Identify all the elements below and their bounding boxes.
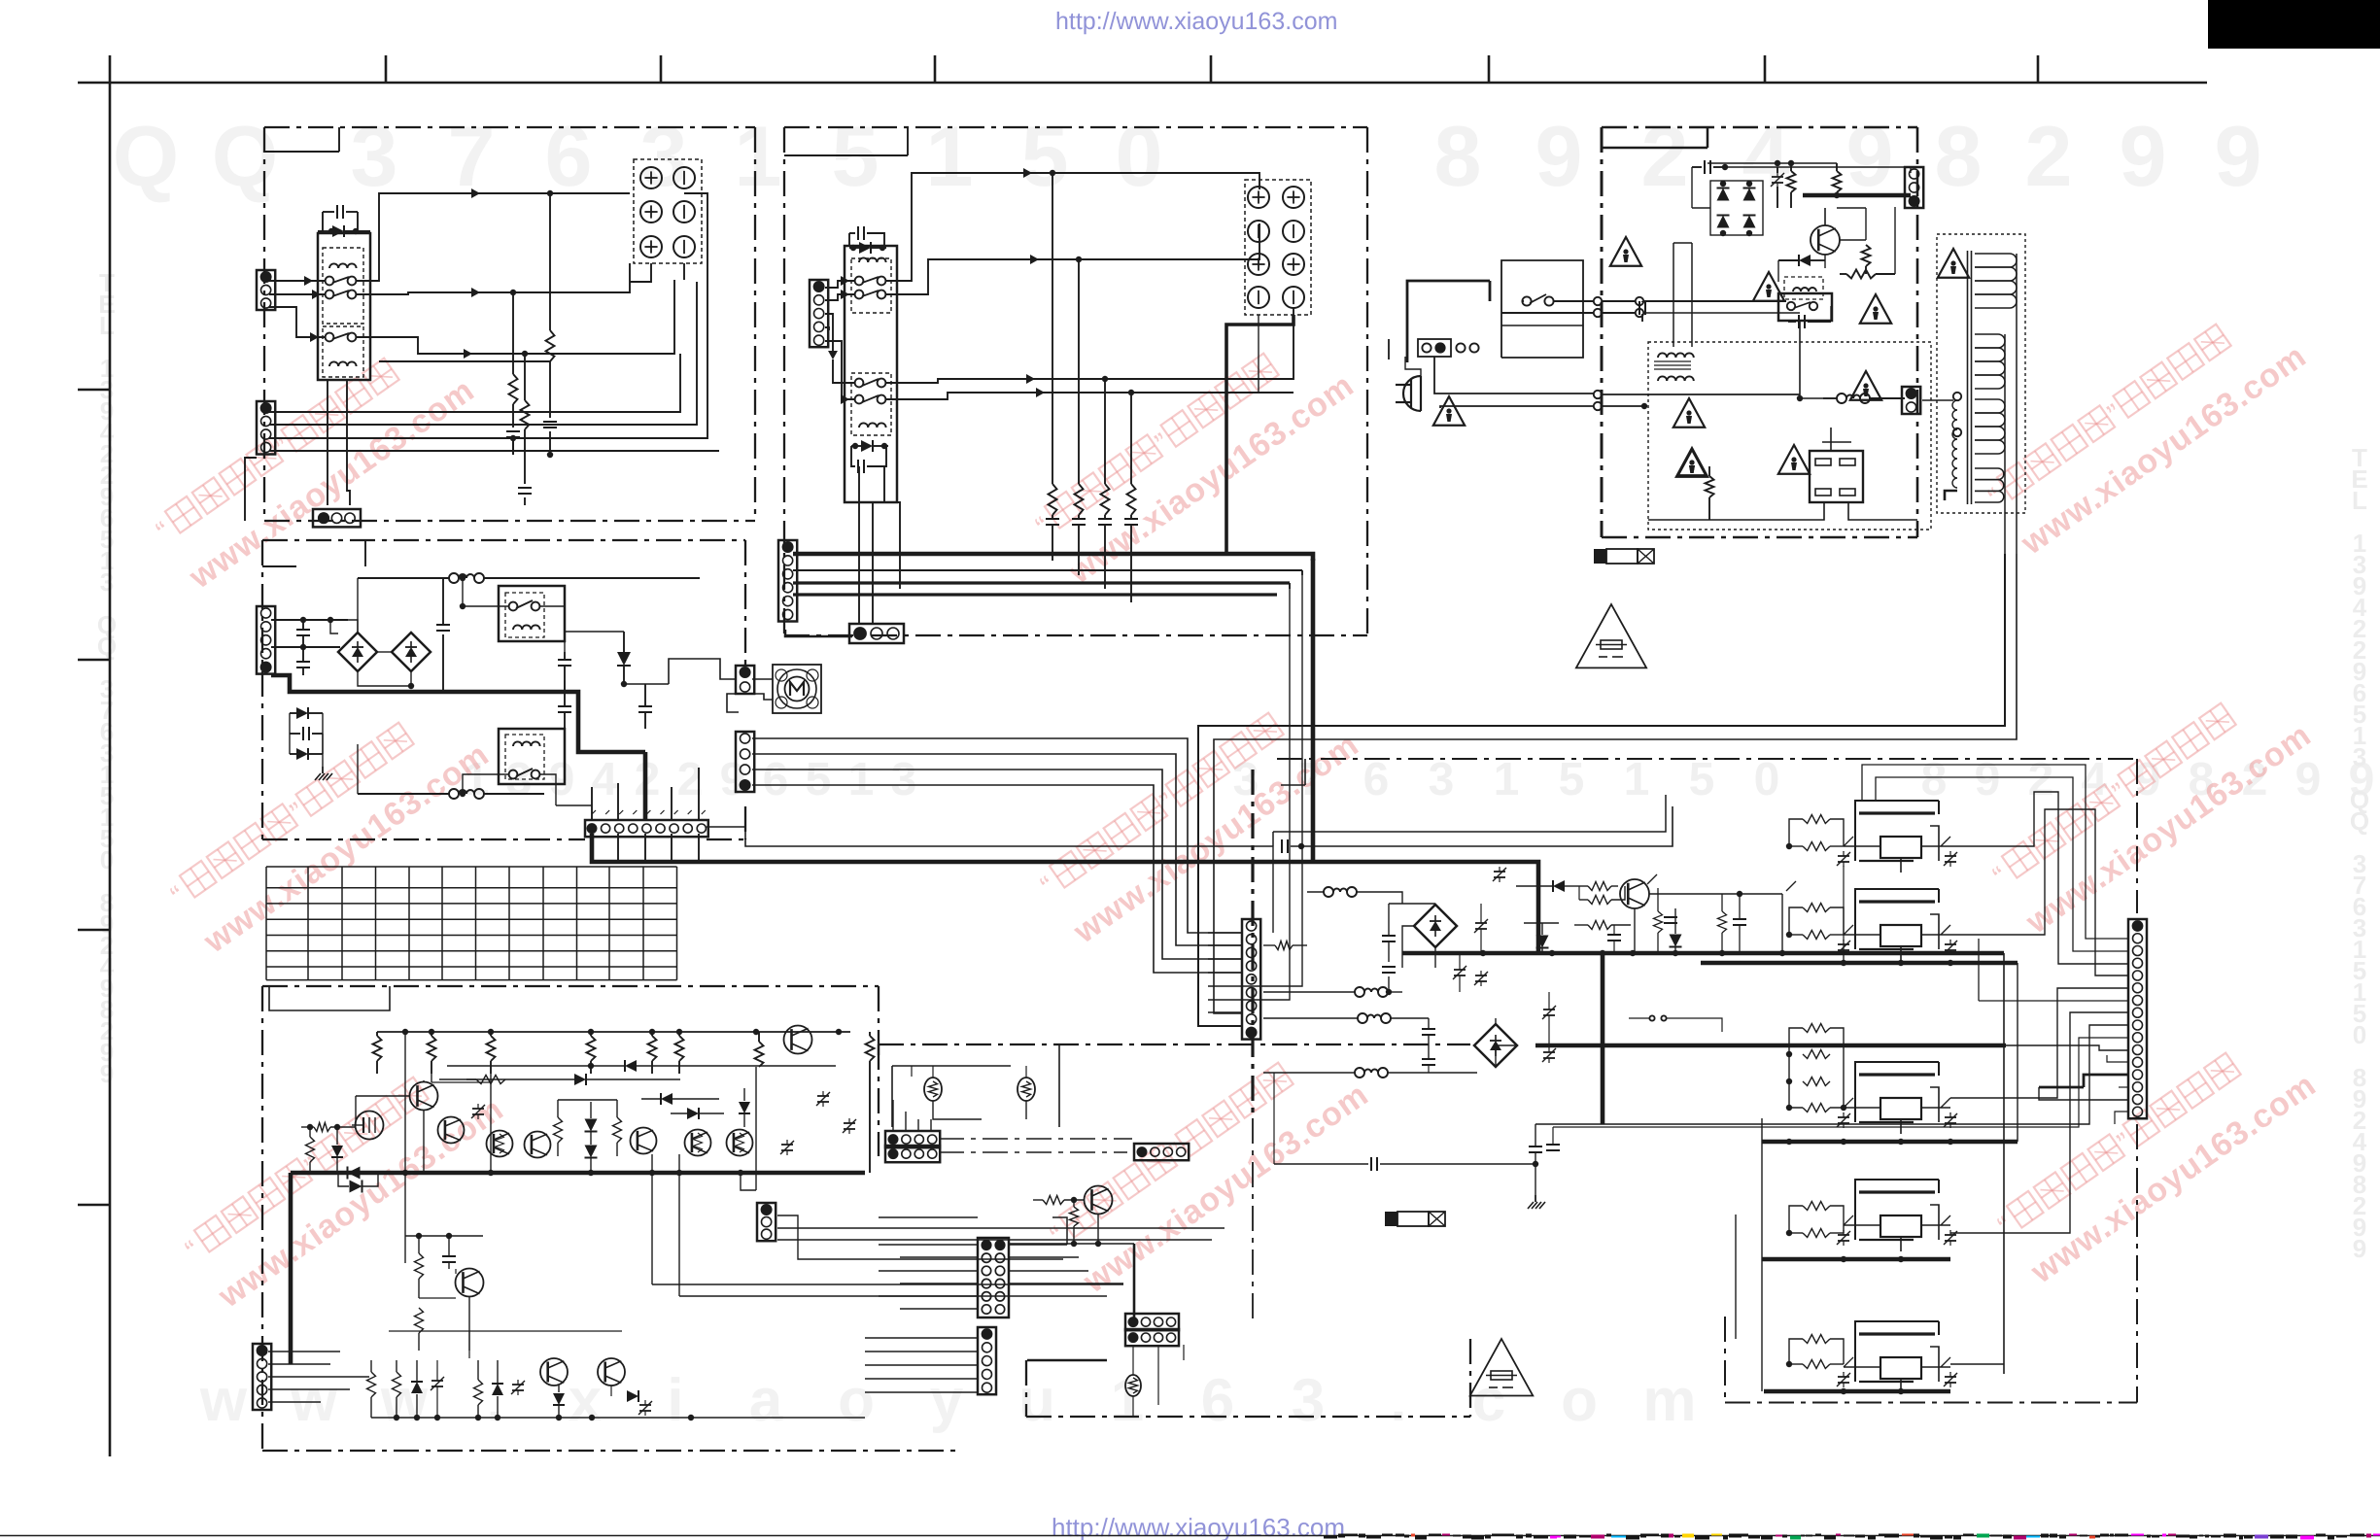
wire xyxy=(683,263,685,280)
relay RY202 contact 1 xyxy=(855,379,886,388)
capacitor C407 xyxy=(290,727,323,740)
wire xyxy=(900,1308,978,1310)
relay module K602 xyxy=(1837,889,1957,961)
transistor Q601 xyxy=(1620,879,1649,908)
svg-text:w: w xyxy=(380,1367,429,1434)
resistor R507 xyxy=(755,1032,764,1067)
wire thick xyxy=(271,675,645,820)
wire xyxy=(1822,428,1851,451)
capacitor C601 xyxy=(1382,904,1396,962)
wire xyxy=(460,578,509,609)
wire long vertical xyxy=(1950,953,2004,1374)
wire xyxy=(885,168,1259,281)
resistor R515 xyxy=(415,1308,424,1351)
wire xyxy=(900,1256,978,1258)
svg-text:3: 3 xyxy=(351,108,398,204)
transistor Q511 xyxy=(540,1358,568,1386)
wire xyxy=(1208,958,1242,960)
svg-text:5: 5 xyxy=(806,754,832,805)
capacitor C103 xyxy=(506,431,520,455)
zener ZD301 xyxy=(1771,167,1784,208)
bridge rectifier DB601 xyxy=(1414,905,1457,947)
wire C out 2 xyxy=(1214,554,2017,1013)
relay RY301 xyxy=(1778,277,1832,321)
capacitor C203 xyxy=(1046,515,1059,561)
wire xyxy=(741,1067,756,1190)
resistor R305 xyxy=(1706,466,1714,520)
connector CN103 xyxy=(313,509,361,527)
wire bus thick xyxy=(592,834,1538,953)
diode D602 xyxy=(1493,867,1579,892)
trimmer VR501 xyxy=(471,1104,485,1119)
transistor Q508 xyxy=(727,1130,753,1156)
watermark 9 xyxy=(1992,1021,2323,1290)
resistor R508 xyxy=(866,1032,875,1173)
capacitor C301 xyxy=(1692,160,1728,174)
wire xyxy=(707,827,1273,846)
wire xyxy=(1673,243,1692,347)
svg-text:5: 5 xyxy=(1021,108,1069,204)
wire xyxy=(404,1032,406,1263)
trimmer VR604 xyxy=(1542,1047,1556,1063)
trimmer VR506 xyxy=(511,1380,525,1395)
wire bus thick xyxy=(793,554,1313,862)
wire bus xyxy=(793,593,1277,596)
wire xyxy=(785,630,852,636)
svg-text:1: 1 xyxy=(1494,754,1520,805)
capacitor C604 xyxy=(1422,1059,1435,1073)
wire xyxy=(1402,926,1435,968)
capacitor C408 xyxy=(1282,806,1673,853)
resistor R201 xyxy=(1049,484,1057,515)
rectifier diode D304 xyxy=(1743,216,1756,228)
resistor R516 xyxy=(367,1360,376,1418)
resistor R520 xyxy=(1070,1200,1079,1247)
wire xyxy=(389,1331,622,1358)
trimmer VR602 xyxy=(1474,971,1488,986)
wire xyxy=(1603,1025,2128,1124)
wire xyxy=(1649,891,1782,953)
capacitor C205 xyxy=(1098,515,1112,589)
transformer T302 rail 2 xyxy=(2004,334,2006,554)
top url text xyxy=(1055,8,1337,35)
connector CN504 xyxy=(1134,1144,1189,1160)
svg-text:6: 6 xyxy=(763,754,789,805)
wire xyxy=(752,679,773,700)
svg-text:0: 0 xyxy=(1116,108,1163,204)
transformer T302 core xyxy=(1968,251,1972,504)
ground GND1 xyxy=(315,767,332,780)
diode D509 xyxy=(553,1386,565,1418)
resistor R509 xyxy=(439,1076,505,1084)
wire xyxy=(1501,309,1800,317)
connector CN301 xyxy=(1905,167,1923,208)
wire xyxy=(669,659,736,684)
inductor L301 xyxy=(1823,394,1905,403)
resistor pair module5 xyxy=(1786,1335,1844,1369)
wire xyxy=(1009,1257,1123,1283)
watermark 2 xyxy=(1030,322,1361,591)
wire thick xyxy=(1803,192,1911,198)
wire xyxy=(1440,402,1647,410)
diode D501 xyxy=(447,1060,836,1072)
relay RY101 coil xyxy=(329,263,357,268)
resistor R301 xyxy=(1787,165,1796,208)
connector CN202 xyxy=(778,540,797,622)
connector CN503 2x4 xyxy=(885,1131,940,1162)
lamp LP502 xyxy=(1018,1078,1035,1101)
inductor L401 xyxy=(358,573,700,633)
wire xyxy=(2119,1086,2128,1088)
bridge rectifier DB401 xyxy=(338,633,377,671)
warning triangle xyxy=(1678,450,1707,475)
rectifier wires xyxy=(1692,167,1763,236)
connector CN401 xyxy=(257,606,275,674)
warning triangle xyxy=(1673,398,1705,428)
wire xyxy=(652,1154,1123,1284)
border top rule xyxy=(78,82,2207,85)
wire xyxy=(424,1074,431,1173)
wire xyxy=(2107,1055,2128,1062)
wire xyxy=(2006,1045,2128,1050)
relay RY101 coil 2 xyxy=(329,361,357,366)
block E notch xyxy=(269,986,390,1010)
rectifier diode D301 xyxy=(1717,188,1730,201)
capacitor C101 xyxy=(318,205,370,231)
svg-text:3: 3 xyxy=(640,108,688,204)
wire xyxy=(1979,939,2128,1001)
connector CN404 xyxy=(736,732,754,792)
wire xyxy=(269,276,326,286)
svg-text:1: 1 xyxy=(735,108,782,204)
diode D402 xyxy=(290,748,323,760)
wire bus thick E xyxy=(291,1170,865,1176)
block E outline xyxy=(262,986,957,1451)
diode D507 xyxy=(348,1167,361,1180)
capacitor C206 xyxy=(1124,515,1138,602)
svg-text:6: 6 xyxy=(545,108,593,204)
svg-text:9: 9 xyxy=(549,754,575,805)
AC plug P301 xyxy=(1396,376,1421,411)
wire B down 1 xyxy=(1242,575,1302,986)
bottom hairline xyxy=(0,1535,2380,1537)
wire xyxy=(269,307,326,342)
power switch inner box xyxy=(1501,260,1583,358)
wire xyxy=(900,1283,978,1284)
wire xyxy=(356,188,630,281)
watermark 1 xyxy=(151,326,481,596)
capacitor C603 xyxy=(1422,1018,1435,1059)
block A outline xyxy=(264,127,755,521)
bottom noise strip xyxy=(1324,1534,2380,1540)
svg-text:9: 9 xyxy=(1975,754,2001,805)
wire xyxy=(1950,1012,2128,1233)
resistor R518 xyxy=(474,1360,483,1418)
signal table grid xyxy=(266,867,677,980)
wire xyxy=(825,327,829,330)
relay RY401 box xyxy=(499,586,565,641)
capacitor C201 xyxy=(849,226,884,246)
svg-text:6: 6 xyxy=(1363,754,1390,805)
wire xyxy=(858,466,860,624)
svg-text:http://www.xiaoyu163.com: http://www.xiaoyu163.com xyxy=(1055,8,1337,35)
transformer T302 rail 1 xyxy=(2016,254,2018,554)
wire xyxy=(752,770,1242,959)
svg-text:1: 1 xyxy=(926,108,974,204)
wire thick xyxy=(1762,1256,1950,1262)
wire xyxy=(269,290,326,299)
resistor pair module4 xyxy=(1786,1202,1844,1238)
wire thick xyxy=(1764,1388,1950,1394)
wire thick xyxy=(2039,1075,2128,1087)
capacitor C303 xyxy=(1639,301,1645,322)
relay RY201 contact 2 xyxy=(855,291,886,299)
watermark 8 xyxy=(1045,1031,1375,1300)
wire xyxy=(424,1080,491,1082)
wire xyxy=(1258,315,1259,393)
capacitor C605 xyxy=(1607,925,1621,953)
block D outline xyxy=(262,540,745,839)
wire xyxy=(1208,1011,1242,1013)
svg-text:5: 5 xyxy=(1559,754,1585,805)
wire xyxy=(1736,1118,1762,1391)
wire xyxy=(564,680,566,692)
wire xyxy=(1825,208,1866,240)
resistor R513 xyxy=(306,1127,315,1173)
wire bus xyxy=(371,1415,865,1420)
svg-text:Q: Q xyxy=(97,632,117,661)
watermark 5 xyxy=(1035,681,1365,950)
relay RY201 coil xyxy=(859,257,886,262)
lamp LP503 xyxy=(1125,1375,1141,1396)
capacitor C501 xyxy=(442,1236,456,1269)
inductor L601 xyxy=(1307,887,1402,904)
wire B down 2 xyxy=(1242,589,1290,1000)
svg-text:0: 0 xyxy=(100,845,114,874)
wire bus xyxy=(269,193,707,458)
wire xyxy=(885,223,1259,294)
capacitor C404 xyxy=(558,652,571,680)
wire xyxy=(556,804,592,806)
wire bus xyxy=(793,583,1290,589)
transformer T301 box xyxy=(1648,342,1931,530)
trimmer VR601 xyxy=(1474,904,1488,953)
background text row xyxy=(113,108,2262,204)
svg-text:4: 4 xyxy=(592,754,618,805)
diode D504 xyxy=(671,1108,724,1119)
connector pin ticks xyxy=(592,810,706,814)
wire xyxy=(1208,972,1242,974)
resistor R505 xyxy=(648,1032,657,1074)
motor connector CN403 xyxy=(736,666,754,694)
inductor L602 xyxy=(1263,987,1402,997)
wire xyxy=(618,834,699,862)
capacitor C104 xyxy=(518,447,532,505)
corner black box xyxy=(2208,0,2380,49)
bridge rectifier DB602 xyxy=(1474,1024,1517,1067)
connector CN601 xyxy=(1242,919,1260,1040)
relay RY402 box xyxy=(499,729,565,784)
wire xyxy=(1725,167,1911,173)
capacitor C403 xyxy=(436,578,450,692)
block F outline xyxy=(1253,759,2137,1403)
wire xyxy=(879,1295,978,1297)
small jumper xyxy=(1629,1015,1722,1032)
relay RY202 contact 2 xyxy=(855,395,886,404)
top tick marks xyxy=(386,55,2038,83)
svg-text:9: 9 xyxy=(2215,108,2262,204)
wire xyxy=(1434,357,1800,398)
wire xyxy=(1496,1018,1517,1067)
diode D510 xyxy=(611,1386,638,1402)
zener ZD501 xyxy=(739,1088,750,1127)
connector CN501 xyxy=(757,1203,776,1241)
svg-text:o: o xyxy=(838,1367,875,1434)
capacitor C610 xyxy=(1274,1157,1538,1171)
svg-text:.: . xyxy=(1390,1367,1406,1434)
interlock pins xyxy=(1456,343,1478,352)
wire xyxy=(872,502,874,624)
svg-text:L: L xyxy=(2352,486,2367,515)
wire xyxy=(865,1391,978,1393)
diode D505 pair xyxy=(585,1102,598,1173)
transistor Q506 xyxy=(631,1128,657,1154)
connector CN602 xyxy=(2128,919,2147,1118)
wire xyxy=(1273,1073,1275,1164)
wire xyxy=(1634,908,1636,953)
wire xyxy=(245,458,257,521)
wire xyxy=(884,466,900,589)
wire xyxy=(330,620,414,689)
svg-text:8: 8 xyxy=(1935,108,1983,204)
relay RY201 contact 1 xyxy=(855,277,886,286)
wire xyxy=(539,774,556,805)
wire xyxy=(356,263,630,297)
wire xyxy=(268,1352,369,1402)
wire xyxy=(793,570,1302,575)
wire thick xyxy=(1701,960,2018,966)
resistor R203 xyxy=(1101,484,1110,515)
svg-text:2: 2 xyxy=(1641,108,1689,204)
wire xyxy=(269,354,680,412)
transistor Q503 xyxy=(438,1117,465,1144)
wire thick TB xyxy=(1226,315,1293,554)
svg-text:w: w xyxy=(199,1367,248,1434)
resistor R506 xyxy=(675,1032,684,1074)
svg-text:9: 9 xyxy=(100,1059,114,1088)
resistor pair module1 xyxy=(1786,815,1844,851)
svg-text:9: 9 xyxy=(2120,108,2167,204)
connector CN203 xyxy=(849,624,904,643)
IC301 protector xyxy=(1810,451,1863,502)
wire xyxy=(833,359,855,383)
connector CN102 xyxy=(257,401,275,455)
capacitor C401 xyxy=(296,620,310,645)
warning triangle xyxy=(1850,371,1881,400)
wire xyxy=(1133,1345,1184,1417)
wire xyxy=(1208,1025,1242,1027)
diode D503 xyxy=(641,1093,719,1105)
svg-text:8: 8 xyxy=(1921,754,1948,805)
svg-text:Q: Q xyxy=(113,108,179,204)
warning triangle xyxy=(1676,448,1707,477)
connector CN505 dual xyxy=(978,1238,1009,1318)
svg-text:3: 3 xyxy=(891,754,917,805)
transistor Q509 xyxy=(784,1026,812,1054)
capacitor C202 xyxy=(851,446,886,473)
svg-text:2: 2 xyxy=(2025,108,2073,204)
trimmer VR505 xyxy=(431,1360,444,1418)
capacitor C405 xyxy=(558,680,571,729)
wire bus xyxy=(269,450,719,452)
wire xyxy=(933,1066,1026,1078)
resistor R601 xyxy=(1263,941,1307,950)
resistor R101 xyxy=(379,193,555,361)
resistor R511 xyxy=(558,1100,622,1156)
transformer T302 primary winding xyxy=(1922,393,1961,500)
wire xyxy=(879,1216,978,1218)
wire thick vert xyxy=(289,1173,293,1364)
capacitor C302 xyxy=(1788,306,1831,328)
wire xyxy=(1579,874,1796,900)
svg-text:9: 9 xyxy=(1535,108,1583,204)
wire bundle xyxy=(1876,777,2128,951)
resistor R302 xyxy=(1833,163,1842,192)
wire xyxy=(405,1233,483,1274)
warning triangle xyxy=(1433,396,1465,426)
svg-text:c: c xyxy=(1472,1367,1505,1434)
background text left edge xyxy=(97,268,117,1088)
diode D401 xyxy=(290,707,323,719)
power switch box xyxy=(1407,281,1490,362)
wire thick xyxy=(1797,322,1823,401)
block B outline xyxy=(784,127,1367,635)
trimmer VR502 xyxy=(780,1140,794,1155)
sub box lines xyxy=(892,1044,1059,1127)
svg-text:o: o xyxy=(1561,1367,1598,1434)
wire xyxy=(539,606,565,652)
wire xyxy=(1648,502,1917,520)
diode D601 xyxy=(1524,923,1559,953)
interlock connector CN302 xyxy=(1418,339,1451,357)
svg-text:0: 0 xyxy=(1754,754,1780,805)
inductor L402 xyxy=(358,744,544,799)
block D notch xyxy=(262,540,745,839)
wire xyxy=(356,1096,409,1125)
relay RY101 contact 2 xyxy=(326,291,357,299)
resistor R304 xyxy=(1840,207,1895,279)
inductor L604 xyxy=(1263,1068,1477,1078)
wire xyxy=(630,263,651,282)
left tick marks xyxy=(78,390,110,1205)
zener ZD502 xyxy=(411,1360,423,1418)
wire xyxy=(1009,1244,1134,1323)
watermark 6 xyxy=(1987,671,2318,941)
rectifier diode D303 xyxy=(1717,216,1730,228)
block C inner top wire xyxy=(1602,127,1707,148)
wire xyxy=(865,1378,978,1380)
wire xyxy=(679,1154,1107,1296)
bridge rectifier DB402 xyxy=(392,633,431,671)
svg-text:x: x xyxy=(569,1367,603,1434)
capacitor C606 xyxy=(1664,902,1677,923)
svg-text:3: 3 xyxy=(1429,754,1455,805)
capacitor C602 xyxy=(1382,967,1396,995)
warning triangle large2 xyxy=(1470,1339,1534,1395)
wire xyxy=(865,1337,978,1339)
wire xyxy=(752,754,1242,945)
warning triangle xyxy=(1938,249,1969,278)
